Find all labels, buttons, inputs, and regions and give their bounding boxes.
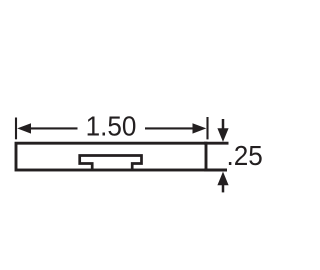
extension line left (1.50 dim) [15,118,17,140]
extension line right (1.50 dim) [206,117,208,139]
arrowhead left (1.50) [17,123,31,133]
extension line bottom (.25 dim) [204,169,227,172]
dimension line 1.50 right segment [145,127,195,129]
svg-text:1.50: 1.50 [86,111,137,142]
arrow stem lower (.25 dim) [222,184,225,193]
arrow stem upper (.25 dim) [222,119,225,130]
T-slot feature (inner profile) [80,156,142,171]
dimension line 1.50 left segment [29,127,78,129]
svg-text:.25: .25 [227,140,263,171]
part outline (plate cross-section) [16,143,206,170]
extension line top (.25 dim) [204,142,229,145]
arrowhead down (.25 upper) [217,128,228,142]
arrowhead up (.25 lower) [217,172,228,186]
arrowhead right (1.50) [193,123,207,133]
